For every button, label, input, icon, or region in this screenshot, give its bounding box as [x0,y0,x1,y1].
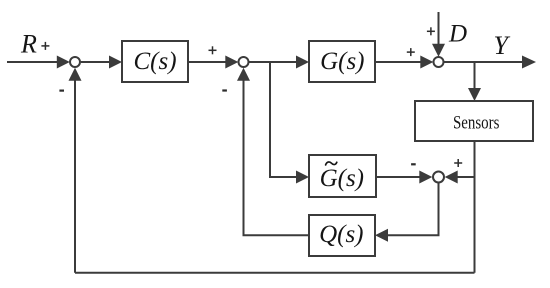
svg-text:Q(s): Q(s) [319,221,363,248]
svg-text:C(s): C(s) [133,48,176,75]
svg-text:G(s): G(s) [320,165,364,192]
svg-text:Sensors: Sensors [453,113,500,134]
svg-text:G(s): G(s) [320,48,364,75]
svg-text:D: D [448,21,467,48]
svg-text:Y: Y [494,31,511,60]
svg-text:R: R [20,30,37,59]
